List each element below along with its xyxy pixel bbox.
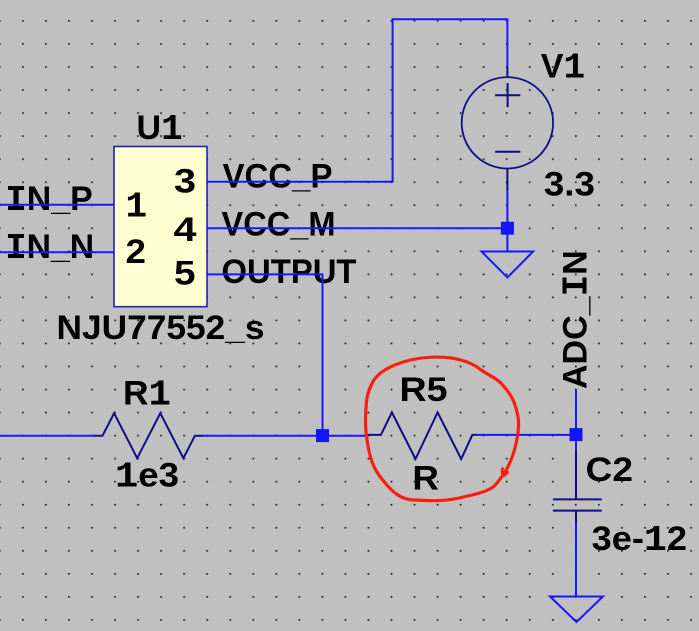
svg-text:3e-12: 3e-12 [592,520,688,561]
svg-text:R: R [412,459,439,497]
svg-text:3.3: 3.3 [544,166,595,204]
svg-text:VCC_P: VCC_P [223,158,333,196]
svg-text:ADC_IN: ADC_IN [557,250,598,389]
svg-text:OUTPUT: OUTPUT [222,253,357,291]
svg-text:R1: R1 [123,374,171,415]
svg-text:1e3: 1e3 [115,456,179,497]
svg-text:U1: U1 [137,109,183,150]
svg-text:V1: V1 [541,48,585,89]
svg-text:5: 5 [174,254,196,292]
svg-text:VCC_M: VCC_M [222,205,336,243]
svg-text:IN_N: IN_N [5,228,94,269]
svg-text:NJU77552_s: NJU77552_s [57,309,265,347]
svg-text:3: 3 [174,162,196,200]
svg-text:1: 1 [126,187,148,228]
svg-text:2: 2 [126,233,147,271]
svg-text:C2: C2 [586,451,634,489]
svg-text:IN_P: IN_P [5,180,93,221]
svg-text:R5: R5 [400,371,448,409]
svg-text:4: 4 [174,211,197,249]
